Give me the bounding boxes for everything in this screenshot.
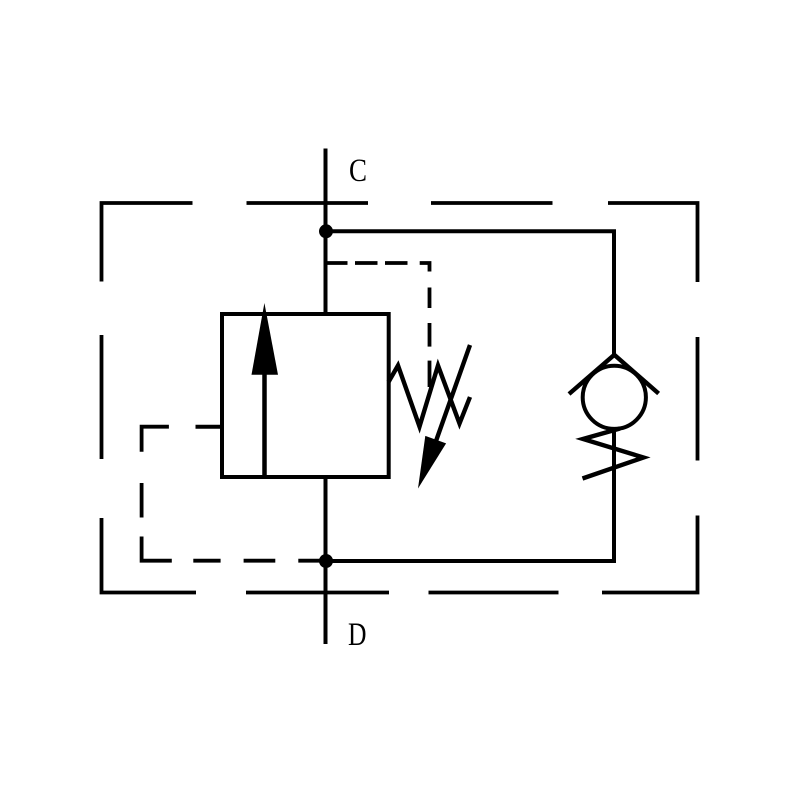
svg-text:D: D — [348, 617, 367, 653]
svg-text:C: C — [349, 153, 367, 189]
